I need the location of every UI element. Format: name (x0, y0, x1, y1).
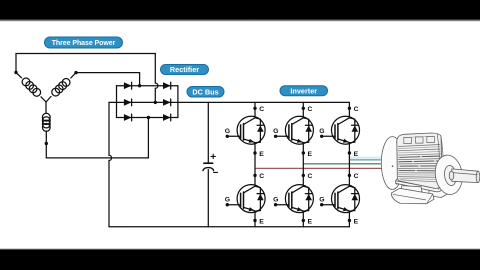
diode D3b (right column row 3) (163, 114, 171, 121)
diode D3a (left column row 3) (124, 114, 132, 121)
wire: DC minus bottom rail (109, 226, 349, 228)
node: Q5 collector (302, 174, 305, 177)
wire: leg 3 midpoint vertical (348, 143, 350, 187)
motor base plate (391, 188, 434, 203)
Q4 body bar (243, 192, 245, 208)
Q2 collector diagonal (292, 118, 304, 125)
node: Q6 emitter (348, 219, 351, 222)
wire: rectifier row1 (117, 85, 178, 87)
node: row2 junction (154, 101, 157, 104)
capacitor C1 plates (204, 162, 213, 164)
svg-text:C: C (354, 106, 359, 113)
node: Q4 emitter (253, 219, 256, 222)
wire: rectifier right rail (177, 86, 179, 118)
svg-text:G: G (319, 128, 324, 135)
wire: leg 2 midpoint vertical (302, 143, 304, 187)
svg-text:Three Phase Power: Three Phase Power (52, 40, 116, 47)
Q3 gate lead and terminal (322, 135, 335, 137)
motor front hub ring (443, 165, 457, 187)
Q5 freewheel diode (303, 186, 308, 211)
Q5 circle (285, 185, 313, 213)
node: row3 junction (147, 116, 150, 119)
Q6 circle (332, 185, 360, 213)
Q4 collector diagonal (244, 186, 256, 193)
Q3 gate bar (334, 125, 336, 138)
wire: leg 2 emitter stub (bottom) (302, 211, 304, 227)
Q4 circle (237, 185, 265, 213)
wire: phase A drop with hop over row1 (155, 54, 158, 103)
inductor L3 (phase C winding) (42, 113, 50, 131)
node: phase A terminal (14, 71, 17, 74)
motor rear foot (429, 181, 449, 198)
Q6 gate lead and terminal (322, 204, 335, 206)
svg-text:E: E (354, 218, 359, 225)
Q1 body bar (243, 124, 245, 140)
svg-text:Inverter: Inverter (290, 86, 317, 95)
Q2 gate lead and terminal (276, 135, 289, 137)
svg-text:G: G (273, 196, 278, 203)
node: Q4 collector (253, 174, 256, 177)
motor body belly (395, 179, 442, 192)
wire: rectifier left rail (116, 86, 118, 118)
Q1 circle (237, 116, 265, 144)
motor: AC induction motor illustration (381, 133, 480, 204)
Q5 gate lead and terminal (276, 204, 289, 206)
svg-text:DC Bus: DC Bus (192, 87, 218, 96)
motor fins (398, 145, 440, 147)
Q1 gate lead and terminal (227, 135, 240, 137)
Q1 freewheel diode (255, 118, 260, 143)
Q3 body bar (337, 124, 339, 140)
motor flange arcs (437, 134, 439, 190)
svg-text:E: E (308, 218, 313, 225)
node: Q2 collector (302, 107, 305, 110)
svg-text:C: C (308, 106, 313, 113)
svg-text:E: E (308, 151, 313, 158)
node: Q3 collector (348, 107, 351, 110)
motor left end bell (381, 137, 403, 190)
inductor L2 (phase B winding) (52, 79, 70, 97)
Q4 gate bar (240, 193, 242, 206)
diode D1b (right column row 1) (163, 82, 171, 89)
Q3 freewheel diode (349, 118, 354, 143)
L3 top lead (45, 102, 47, 113)
svg-text:G: G (225, 128, 230, 135)
node: Q5 emitter (302, 219, 305, 222)
diode D1a (left column row 1) (124, 82, 132, 89)
inductor L1 (phase A winding) (22, 78, 40, 96)
wire: phase B rail (76, 73, 140, 86)
wire: leg 1 emitter stub (bottom) (254, 211, 256, 227)
svg-text:C: C (308, 173, 313, 180)
svg-text:C: C (354, 173, 359, 180)
label pill: Inverter (280, 86, 328, 96)
diode D2a (left column row 2) (124, 99, 132, 106)
node: Q1 emitter (253, 151, 256, 154)
svg-text:Rectifier: Rectifier (170, 65, 199, 74)
motor mid hatch band (399, 156, 442, 171)
Q4 gate lead and terminal (227, 204, 240, 206)
Q3 circle (332, 116, 360, 144)
Q5 gate bar (288, 193, 290, 206)
L2 leads (46, 73, 76, 102)
wire: rectifier row3 (117, 117, 178, 119)
Q2 body bar (291, 124, 293, 140)
wire: leg 1 collector stub (top) (254, 102, 256, 117)
Q1 emitter diagonal with arrow (244, 139, 256, 143)
Q4 emitter diagonal with arrow (244, 207, 256, 211)
Q3 emitter diagonal with arrow (338, 139, 350, 143)
Q1 collector diagonal (244, 118, 256, 125)
motor hub (449, 171, 454, 180)
svg-text:E: E (259, 218, 264, 225)
motor body (397, 133, 443, 188)
L1 leads (16, 73, 46, 103)
Q5 emitter diagonal with arrow (292, 207, 304, 211)
svg-text:E: E (259, 151, 264, 158)
svg-text:G: G (273, 128, 278, 135)
label pill: Three Phase Power (45, 37, 123, 48)
Q6 body bar (337, 192, 339, 208)
wire: motor phase V (green) (303, 163, 384, 165)
Q5 collector diagonal (292, 186, 304, 193)
svg-text:G: G (225, 196, 230, 203)
Q2 freewheel diode (303, 118, 308, 143)
capacitor C1 plus label (211, 154, 215, 158)
Q2 gate bar (288, 125, 290, 138)
svg-text:C: C (259, 106, 264, 113)
Q1 gate bar (240, 125, 242, 138)
svg-text:G: G (319, 196, 324, 203)
wire: motor phase W (cyan) (349, 156, 384, 158)
capacitor C1 minus label (214, 171, 218, 173)
motor top vents (404, 137, 412, 143)
node: phase B terminal (74, 71, 77, 74)
wire: leg 3 collector stub (top) (348, 102, 350, 117)
Q2 emitter diagonal with arrow (292, 139, 304, 143)
wire: leg 1 midpoint vertical (254, 143, 256, 187)
node: phase C terminal (45, 142, 48, 145)
Q6 emitter diagonal with arrow (338, 207, 350, 211)
label pill: Rectifier (161, 65, 209, 75)
node: Q6 collector (348, 174, 351, 177)
Q3 collector diagonal (338, 118, 350, 125)
wire: phase C bottom run (46, 118, 148, 158)
node: row1 junction (138, 84, 141, 87)
Q6 collector diagonal (338, 186, 350, 193)
wire: DC minus drop with hop over phase C (109, 102, 112, 226)
node: Q3 emitter (348, 151, 351, 154)
svg-text:E: E (354, 151, 359, 158)
Q6 gate bar (334, 193, 336, 206)
motor front bell face (433, 153, 465, 196)
wire: capacitor bottom lead (207, 170, 209, 227)
Q2 circle (285, 116, 313, 144)
motor shaft (452, 169, 478, 183)
node: Q1 collector (253, 107, 256, 110)
Q4 freewheel diode (255, 186, 260, 211)
top letterbox bar (0, 0, 480, 19)
bottom letterbox bar (0, 248, 480, 250)
Q6 freewheel diode (349, 186, 354, 211)
diode D2b (right column row 2) (163, 99, 171, 106)
label pill: DC Bus (187, 87, 224, 98)
motor drain dot (392, 165, 394, 167)
motor front foot pedestal (395, 186, 424, 198)
wire: DC bus row2 + positive rail (109, 101, 349, 103)
Q5 body bar (291, 192, 293, 208)
node: Q2 emitter (302, 151, 305, 154)
wire: phase A top rail (16, 54, 155, 73)
wire: motor phase U (red) (255, 167, 383, 169)
wire: leg 2 collector stub (top) (302, 102, 304, 117)
wire: capacitor top lead (207, 102, 209, 163)
svg-text:C: C (259, 173, 264, 180)
wire: leg 3 emitter stub (bottom) (348, 211, 350, 227)
